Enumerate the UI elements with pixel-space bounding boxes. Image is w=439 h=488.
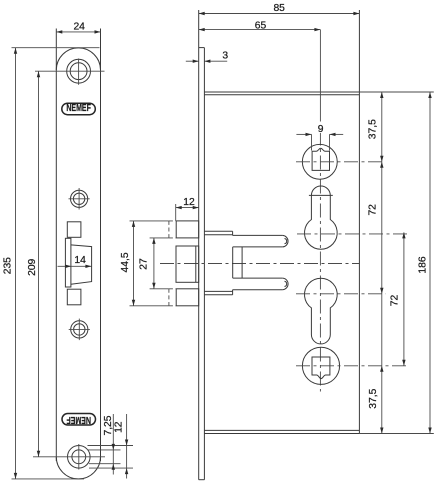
dimension 209: [27, 71, 105, 457]
svg-text:44,5: 44,5: [120, 252, 131, 272]
euro cylinder hole upper: [297, 186, 408, 249]
lock case outline: [204, 10, 433, 434]
plate hole lower middle: [69, 319, 90, 341]
dimension 65: [199, 21, 321, 32]
svg-text:235: 235: [2, 257, 13, 274]
spindle hole bottom: [296, 347, 408, 384]
dimension 3: [186, 51, 229, 63]
dimension 24: [56, 21, 100, 33]
svg-text:12: 12: [113, 421, 124, 433]
NEMEF logo bottom (rotated 180): [62, 414, 96, 426]
guide block bottom side view: [169, 289, 199, 306]
plate hole upper middle: [69, 188, 90, 210]
svg-text:12: 12: [183, 197, 195, 208]
dimension 235: [2, 48, 99, 479]
latch bolt front view: [65, 238, 91, 287]
svg-text:37,5: 37,5: [367, 119, 378, 139]
dimension 72 first: [368, 162, 384, 294]
dimension 27: [139, 238, 169, 289]
screw hole top: [67, 59, 91, 85]
svg-text:27: 27: [139, 258, 150, 270]
dimension 37,5 top: [367, 92, 383, 162]
svg-text:65: 65: [255, 21, 267, 32]
svg-text:186: 186: [418, 256, 429, 273]
svg-text:24: 24: [73, 21, 85, 32]
svg-text:14: 14: [74, 255, 86, 266]
dimension 186: [418, 92, 432, 434]
fork bolt side view: [204, 231, 288, 294]
svg-text:NEMEF: NEMEF: [66, 103, 91, 114]
cylinder axis vertical line: [319, 30, 321, 392]
case centerline: [160, 263, 359, 265]
dimension 44,5: [120, 221, 169, 306]
latch guide square top: [67, 222, 81, 238]
svg-text:209: 209: [27, 258, 38, 275]
svg-text:72: 72: [368, 204, 379, 216]
dimension 37,5 bottom: [368, 294, 384, 434]
dimension 12 hole: [113, 414, 128, 479]
svg-text:3: 3: [222, 51, 228, 62]
spindle hole top: [296, 144, 386, 179]
svg-text:72: 72: [390, 295, 401, 307]
faceplate front view outline: [56, 29, 100, 479]
guide block top side view: [169, 221, 199, 238]
dimension 72 second: [390, 232, 406, 365]
svg-text:37,5: 37,5: [368, 388, 379, 408]
svg-text:85: 85: [273, 3, 285, 14]
dimension 9: [296, 122, 343, 151]
faceplate side view strip: [199, 10, 205, 480]
dimension 7,25: [103, 414, 115, 475]
screw hole bottom: [68, 444, 134, 470]
svg-text:9: 9: [318, 124, 324, 135]
svg-text:NEMEF: NEMEF: [66, 414, 91, 425]
latch guide square bottom: [67, 289, 81, 305]
NEMEF logo top: [62, 103, 96, 115]
euro cylinder hole lower: [296, 278, 386, 344]
dimension 85: [199, 3, 360, 15]
dimension 14: [58, 255, 92, 268]
dimension 12 block: [176, 197, 199, 221]
deadbolt block middle side view: [176, 246, 199, 282]
